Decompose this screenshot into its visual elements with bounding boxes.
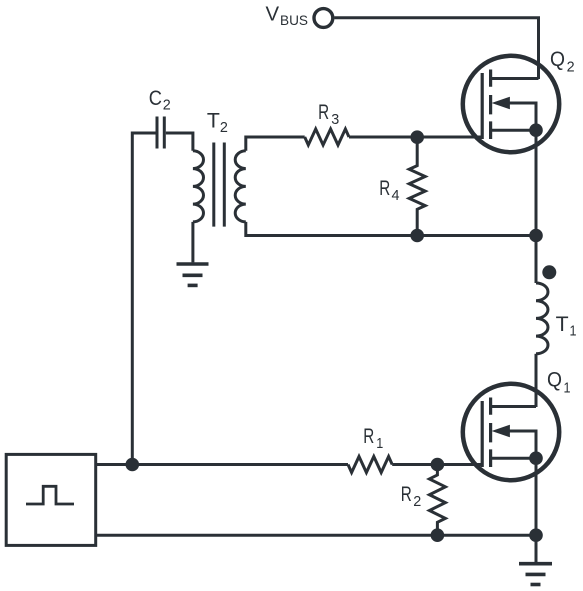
label VBUS	[266, 3, 309, 28]
label R4	[379, 176, 399, 204]
wire C2 right lead to T2 primary	[166, 133, 193, 151]
node pulse C2 junction	[126, 458, 140, 472]
svg-text:2: 2	[163, 96, 171, 113]
label Q2	[550, 47, 575, 75]
svg-text:2: 2	[413, 493, 421, 510]
resistor R3	[305, 129, 349, 145]
transformer T2 secondary winding	[235, 151, 246, 222]
label T2	[207, 108, 228, 136]
resistor R2	[429, 465, 445, 536]
label T1	[556, 312, 577, 340]
svg-text:R: R	[401, 482, 412, 506]
svg-text:BUS: BUS	[280, 12, 308, 28]
wire pulse top output to R1	[96, 463, 348, 466]
terminal VBUS	[314, 9, 333, 28]
node R1 R2 junction	[431, 458, 445, 472]
wire T1 to Q1 drain	[535, 354, 538, 407]
inductor T1	[536, 283, 548, 354]
svg-text:1: 1	[570, 322, 577, 339]
wire Q1 source down to ground node	[535, 458, 538, 535]
svg-text:1: 1	[376, 435, 383, 452]
wire VBUS to Q2 drain	[335, 18, 539, 79]
node R2 bottom junction	[431, 528, 445, 542]
ground (T2 primary)	[177, 264, 209, 285]
wire R3 to Q2 gate	[349, 136, 482, 139]
transistor Q1	[463, 384, 559, 480]
capacitor C2	[157, 117, 164, 149]
svg-text:T: T	[207, 108, 220, 132]
svg-text:V: V	[266, 3, 280, 26]
svg-text:R: R	[363, 424, 374, 448]
wire T2 secondary bottom to rail	[246, 222, 536, 236]
wire T2 secondary top to R3	[246, 137, 305, 151]
label Q1	[547, 368, 571, 397]
transformer T2 core	[214, 143, 225, 227]
pulse symbol	[26, 486, 74, 504]
ground (main)	[519, 564, 552, 585]
label C2	[149, 86, 171, 113]
label R3	[318, 100, 339, 128]
svg-text:2: 2	[220, 119, 228, 136]
wire R1 to Q1 gate	[392, 463, 482, 466]
svg-text:Q: Q	[547, 368, 562, 392]
node R4 bottom junction	[410, 229, 424, 243]
wire ground stub	[535, 535, 538, 562]
wire T2 primary to ground	[191, 222, 194, 263]
svg-text:T: T	[556, 312, 569, 336]
svg-text:C: C	[149, 86, 162, 110]
svg-text:R: R	[379, 176, 390, 200]
svg-text:2: 2	[567, 58, 575, 75]
node R3 R4 junction	[410, 130, 424, 144]
node Q1 source ground junction	[529, 528, 543, 542]
label R2	[401, 482, 422, 510]
pulse generator box	[6, 454, 96, 545]
node Q2 source T1 top junction	[529, 229, 543, 243]
svg-text:Q: Q	[550, 47, 565, 71]
svg-text:R: R	[318, 100, 329, 124]
svg-text:1: 1	[564, 379, 571, 396]
svg-text:3: 3	[331, 111, 339, 128]
wire C2 left lead down to pulse node	[132, 133, 155, 465]
wire pulse bottom output	[96, 534, 536, 537]
label R1	[363, 424, 383, 452]
transformer T2 primary winding	[193, 151, 204, 222]
wire Q2 source down to T1	[535, 130, 538, 283]
svg-text:4: 4	[392, 187, 400, 204]
resistor R4	[409, 137, 425, 235]
polarity dot T1	[542, 265, 556, 279]
transistor Q2	[463, 56, 559, 152]
resistor R1	[348, 457, 392, 473]
